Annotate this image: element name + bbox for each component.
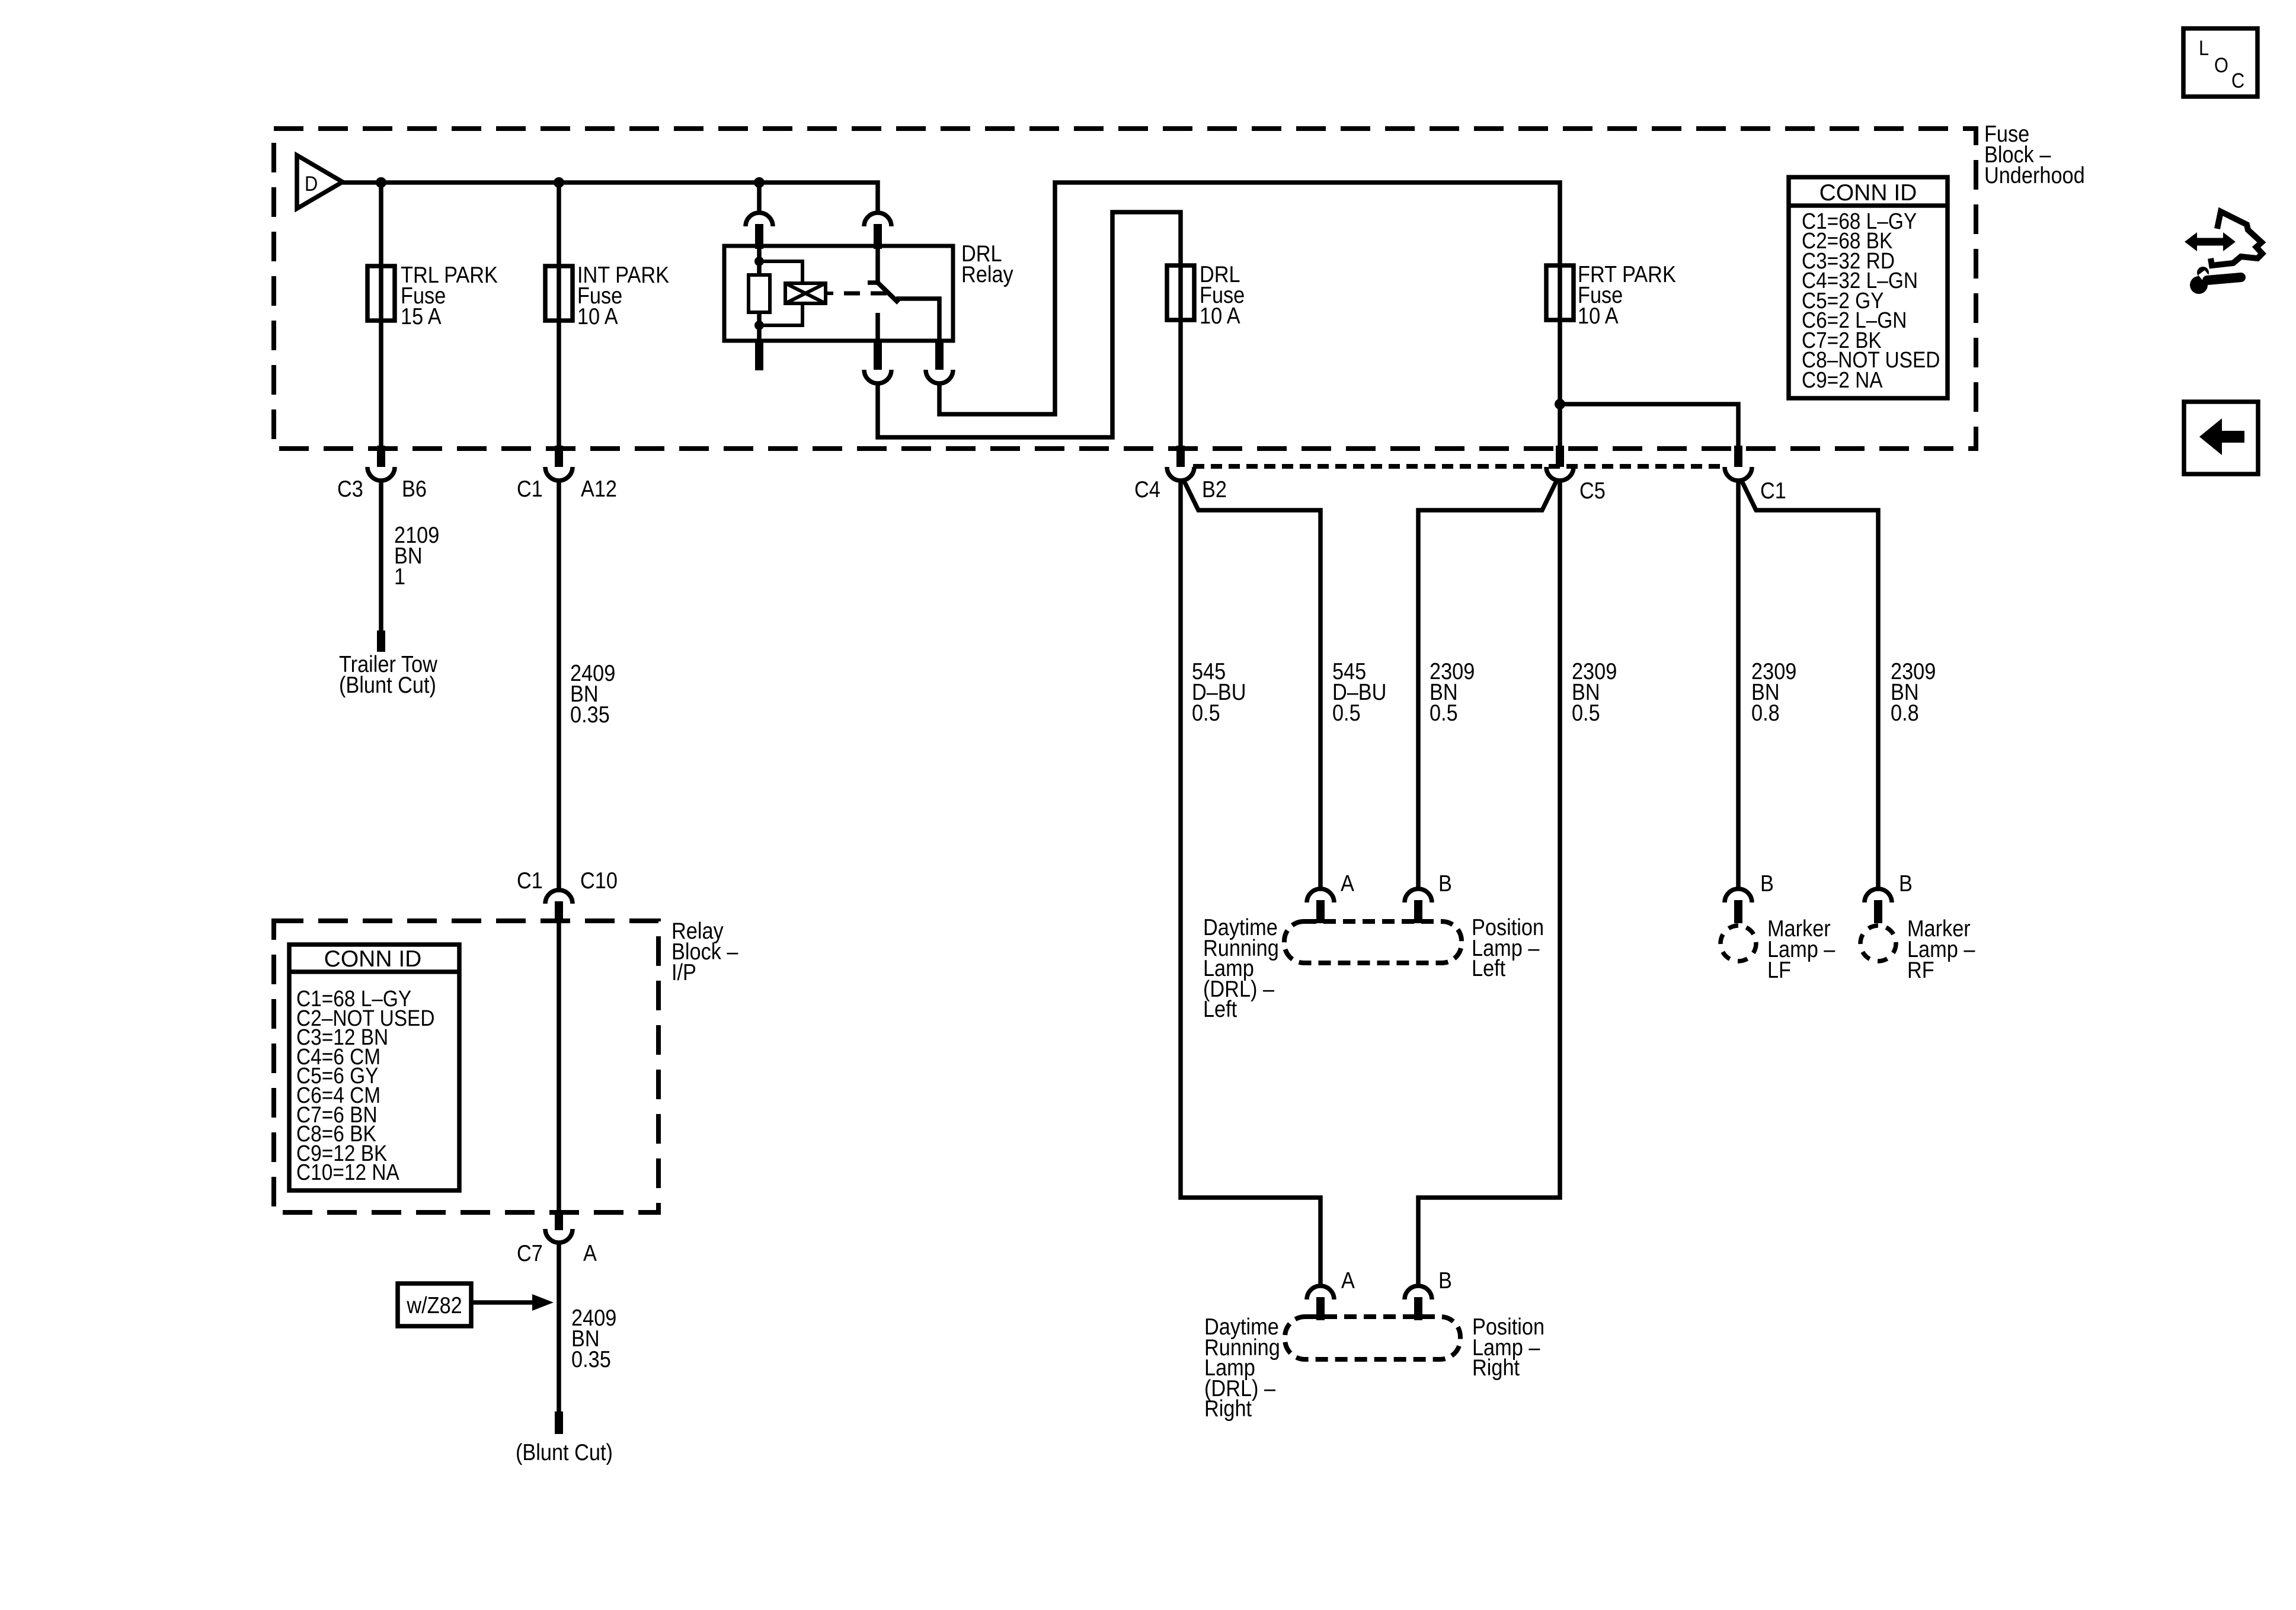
w/Z82 box <box>398 1283 471 1326</box>
svg-text:(Blunt Cut): (Blunt Cut) <box>516 1439 613 1465</box>
relay actuator dashed line <box>844 292 887 296</box>
svg-text:0.35: 0.35 <box>570 702 610 728</box>
wire C7 to blunt cut <box>557 1243 561 1413</box>
svg-text:B: B <box>1760 870 1774 897</box>
pin B marker LF clip <box>1725 889 1752 902</box>
svg-text:0.8: 0.8 <box>1751 700 1780 726</box>
relay coil bottom pin (blunt) <box>755 341 763 370</box>
wire coil loop <box>759 261 833 325</box>
wire C1 to marker LF <box>1736 480 1741 889</box>
svg-text:10 A: 10 A <box>1200 303 1240 329</box>
svg-text:Relay: Relay <box>961 261 1013 287</box>
svg-text:C: C <box>2231 69 2244 92</box>
wire to trailer tow <box>379 480 383 633</box>
node bus junction at TRL fuse <box>376 177 386 188</box>
node FRT junction <box>1555 399 1565 409</box>
svg-text:C3: C3 <box>337 476 363 502</box>
svg-text:0.5: 0.5 <box>1430 700 1458 726</box>
LOC box icon <box>2183 28 2257 97</box>
svg-text:A: A <box>1341 1267 1355 1294</box>
diagnostic icon (double arrow) <box>2193 238 2227 246</box>
svg-text:Left: Left <box>1472 955 1505 981</box>
blunt cut stub (bottom) <box>555 1411 563 1434</box>
marker lamp RF (dashed circle) <box>1860 926 1896 961</box>
node bus junction at INT fuse <box>554 177 564 188</box>
connector C1 (front) <box>1734 446 1742 467</box>
CONN ID box I/P <box>289 945 459 1190</box>
marker lamp LF (dashed circle) <box>1721 926 1756 961</box>
svg-text:RF: RF <box>1907 957 1934 983</box>
svg-text:L: L <box>2199 36 2209 59</box>
relay block - I/P (dashed box) <box>274 921 658 1212</box>
svg-text:10 A: 10 A <box>577 303 618 329</box>
pin A DRL-right clip <box>1307 1286 1334 1299</box>
relay switch output wire <box>896 299 939 341</box>
relay switch pin connector clip <box>864 213 891 226</box>
connector C7/A <box>555 1210 563 1230</box>
resistor (relay) <box>749 275 770 312</box>
wire relay pin87 to DRL fuse <box>878 212 1181 449</box>
DRL lamp right (dashed) <box>1285 1317 1460 1359</box>
svg-text:Underhood: Underhood <box>1984 162 2085 188</box>
wire C5 main vertical to position right <box>1418 480 1560 1286</box>
wire C5 branch to position left pin B <box>1418 479 1558 889</box>
relay coil pin wire from bus <box>757 183 762 213</box>
node D triangle <box>297 155 343 209</box>
wire junction to C1 <box>1560 404 1738 449</box>
svg-text:B: B <box>1899 870 1913 897</box>
CONN ID box underhood <box>1789 177 1948 398</box>
DRL relay box <box>724 246 953 341</box>
svg-text:C4: C4 <box>1134 476 1160 502</box>
wire INT fuse drop <box>557 183 561 449</box>
relay coil pin connector clip <box>746 213 773 226</box>
svg-text:LF: LF <box>1767 957 1791 983</box>
svg-text:1: 1 <box>394 564 405 590</box>
wire resistor bottom <box>757 312 762 341</box>
diagnostic icon (head outline) <box>2211 212 2262 265</box>
svg-text:0.5: 0.5 <box>1572 700 1600 726</box>
wire TRL fuse drop <box>379 183 383 449</box>
connector C1/A12 <box>555 446 563 467</box>
connector C3/B6 <box>377 446 385 467</box>
connector C4/B2 <box>1176 446 1185 467</box>
svg-text:A12: A12 <box>581 476 617 502</box>
svg-text:CONN ID: CONN ID <box>1819 180 1917 206</box>
svg-text:B6: B6 <box>402 476 427 502</box>
svg-text:B: B <box>1438 1267 1452 1294</box>
blunt cut stub (trailer tow) <box>377 630 385 652</box>
fuse block - underhood (dashed box) <box>274 129 1976 449</box>
DRL lamp left (dashed) <box>1284 921 1462 963</box>
node relay coil top <box>754 257 764 266</box>
svg-text:Right: Right <box>1204 1395 1252 1422</box>
wire C1 branch to marker RF <box>1741 479 1878 889</box>
relay coil (box with X) <box>785 283 826 303</box>
wire through relay block <box>557 923 561 1212</box>
svg-text:C9=2 NA: C9=2 NA <box>1802 367 1883 392</box>
node bus junction at relay coil <box>754 177 765 188</box>
connector C1/C10 clip <box>545 890 573 904</box>
back arrow <box>2199 418 2244 455</box>
wire C4 main vertical to DRL right <box>1181 480 1320 1286</box>
fuse DRL 10A <box>1167 265 1194 320</box>
connector C5 <box>1556 446 1564 467</box>
node relay coil bottom <box>754 321 764 330</box>
svg-text:O: O <box>2214 53 2228 76</box>
relay bottom pin 87 <box>874 341 882 370</box>
fuse FRT PARK 10A <box>1546 265 1574 320</box>
diagnostic icon (wrench) <box>2190 276 2208 294</box>
svg-text:A: A <box>1341 870 1354 897</box>
relay internal wire to resistor <box>757 249 762 275</box>
svg-text:(Blunt Cut): (Blunt Cut) <box>339 672 436 698</box>
svg-text:A: A <box>583 1240 597 1266</box>
relay switch contact <box>875 313 880 341</box>
svg-text:0.5: 0.5 <box>1192 700 1220 726</box>
svg-text:C1: C1 <box>517 868 543 894</box>
back arrow box icon <box>2184 402 2258 474</box>
svg-text:D: D <box>305 172 318 195</box>
svg-text:C10: C10 <box>580 868 618 894</box>
wire relay pin30 to bus right <box>939 183 1560 449</box>
svg-text:B: B <box>1438 870 1452 897</box>
pin A DRL-left clip <box>1307 889 1334 902</box>
svg-text:0.8: 0.8 <box>1891 700 1919 726</box>
svg-text:C5: C5 <box>1579 478 1606 504</box>
svg-text:C7: C7 <box>517 1240 543 1266</box>
fuse TRL PARK 15A <box>367 266 395 321</box>
svg-text:10 A: 10 A <box>1578 303 1619 329</box>
w/Z82 arrow <box>472 1300 532 1305</box>
svg-text:C1: C1 <box>1760 478 1786 504</box>
svg-text:CONN ID: CONN ID <box>324 946 422 972</box>
svg-text:Left: Left <box>1203 996 1237 1022</box>
svg-text:15 A: 15 A <box>401 303 442 329</box>
relay switch blade <box>878 283 898 303</box>
relay bottom pin 30 <box>935 341 944 370</box>
pin B position-right clip <box>1405 1286 1432 1299</box>
svg-text:0.35: 0.35 <box>571 1346 611 1372</box>
relay switch common wire <box>868 249 878 283</box>
svg-text:w/Z82: w/Z82 <box>406 1292 462 1318</box>
svg-text:Right: Right <box>1472 1355 1520 1381</box>
wire bus left <box>343 183 878 213</box>
svg-text:I/P: I/P <box>671 959 696 985</box>
svg-text:C10=12 NA: C10=12 NA <box>296 1160 399 1185</box>
pin B position-left clip <box>1405 889 1432 902</box>
wire A12 to relay block <box>557 480 561 890</box>
pin B marker RF clip <box>1865 889 1892 902</box>
wire C4 branch to DRL left pin A <box>1183 479 1320 889</box>
svg-text:C1: C1 <box>517 476 543 502</box>
dotted harness line <box>1193 464 1724 469</box>
svg-text:0.5: 0.5 <box>1332 700 1361 726</box>
svg-text:B2: B2 <box>1202 476 1227 502</box>
fuse INT PARK 10A <box>545 266 573 321</box>
